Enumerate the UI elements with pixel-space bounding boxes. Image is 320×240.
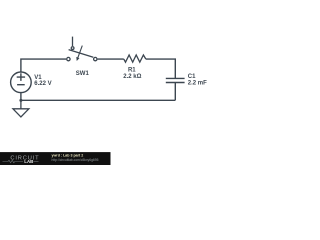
capacitor C1: [166, 78, 185, 82]
ground: [13, 100, 29, 117]
svg-text:SW1: SW1: [76, 71, 90, 77]
SW1 actuator arrow line: [78, 46, 82, 58]
resistor R1 zigzag: [124, 55, 146, 62]
SW1 top throw stub: [72, 37, 74, 47]
switch SW1: [67, 37, 97, 61]
wire C1 bottom plate down to bottom rail: [174, 83, 176, 101]
SW1 actuator arrowhead: [76, 57, 79, 61]
wire bottom rail: [21, 99, 175, 101]
C1 top plate: [166, 77, 185, 79]
svg-text:R1: R1: [128, 68, 136, 74]
SW1 top throw terminal circle: [71, 47, 74, 50]
SW1 right terminal circle: [94, 57, 97, 60]
watermark bar: [0, 152, 111, 165]
svg-text:6.22 V: 6.22 V: [34, 81, 51, 87]
svg-text:http://circuitlab.com/c5kxy6g6: http://circuitlab.com/c5kxy6g695: [52, 158, 99, 162]
node junction dot: [19, 99, 22, 102]
svg-text:2.2 kΩ: 2.2 kΩ: [123, 74, 141, 80]
wire top-left from V1 up and right to SW1 left terminal: [21, 59, 66, 72]
svg-text:C1: C1: [188, 74, 196, 80]
wire SW1 right terminal to R1: [98, 58, 124, 60]
C1 bottom plate: [166, 82, 185, 84]
watermark logo wire doodle right: [34, 161, 39, 163]
SW1 lever: [69, 50, 94, 58]
watermark logo wire doodle: [3, 160, 24, 162]
voltage source V1: [11, 72, 32, 93]
wire V1 bottom to ground node: [20, 93, 22, 101]
SW1 left terminal circle: [67, 57, 70, 60]
wire R1 to top-right corner down to C1 top plate: [146, 59, 175, 78]
svg-text:LAB: LAB: [24, 159, 33, 164]
svg-text:2.2 mF: 2.2 mF: [188, 81, 207, 87]
